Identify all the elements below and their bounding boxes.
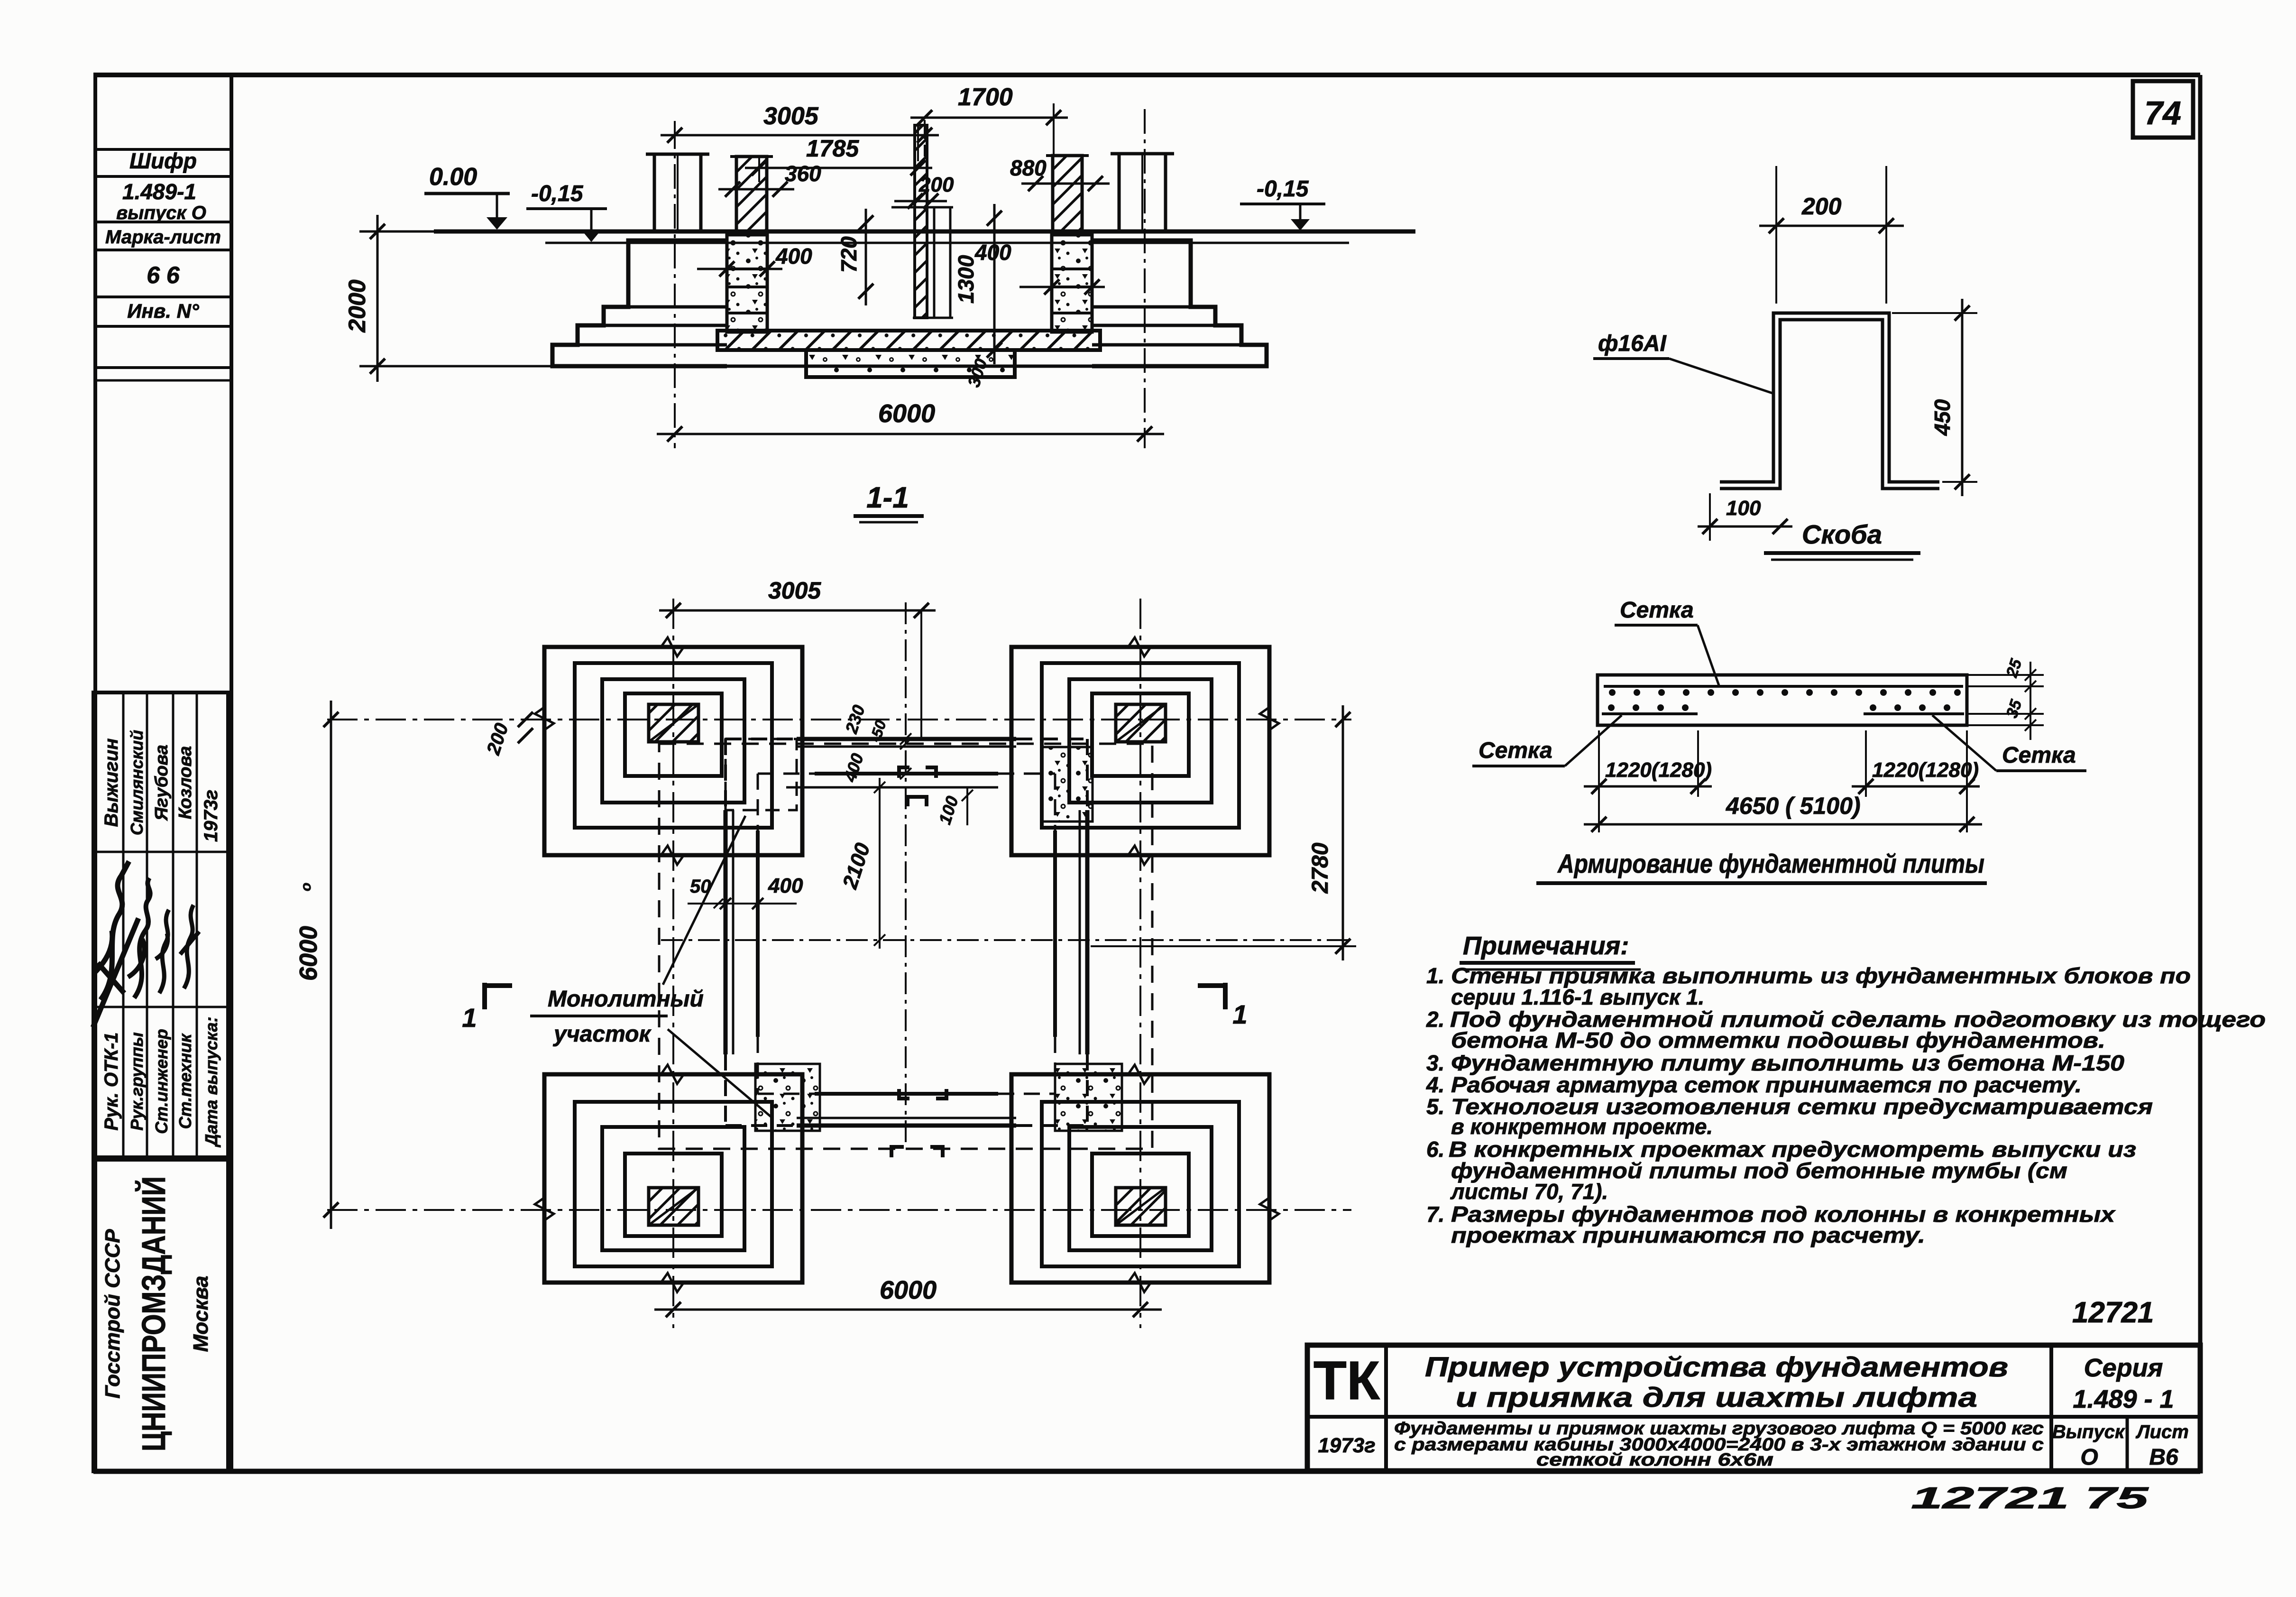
dim 360 [718, 188, 794, 191]
dim 400 / 50 on left wall [688, 903, 797, 905]
foundation bottom line [552, 365, 1267, 368]
svg-text:Инв. N°: Инв. N° [127, 300, 200, 322]
dim 2000 left [377, 215, 379, 382]
dim 100 [1698, 526, 1792, 528]
svg-text:200: 200 [918, 173, 954, 196]
svg-text:25: 25 [2002, 656, 2025, 680]
top mesh line with bar dots [1604, 685, 1963, 688]
svg-text:Москва: Москва [189, 1276, 212, 1352]
stamp table: executors names and signatures [93, 692, 228, 1157]
svg-text:Шифр: Шифр [129, 148, 197, 173]
pit centre axes [905, 602, 907, 1148]
svg-text:6000: 6000 [880, 1276, 937, 1304]
column axis right [1144, 109, 1146, 448]
svg-text:Монолитный: Монолитный [548, 987, 704, 1012]
dim 1220(1280) right [1865, 730, 1867, 797]
svg-text:400: 400 [775, 244, 812, 268]
footing (nested squares) [544, 647, 802, 855]
lean concrete under slab (stippled) [806, 350, 1015, 377]
svg-text:1.489-1: 1.489-1 [122, 179, 196, 204]
svg-text:360: 360 [785, 161, 821, 186]
far column left (thin outline) [646, 153, 709, 156]
svg-text:0.00: 0.00 [429, 163, 477, 191]
svg-text:12721 75: 12721 75 [1911, 1481, 2149, 1515]
stamp: Госстрой СССР ЦНИИПРОМЗДАНИЙ Москва [93, 1160, 228, 1471]
pit walls inner [815, 772, 998, 775]
wall/slab second lines [797, 746, 1016, 748]
svg-text:400: 400 [768, 874, 803, 897]
svg-text:230: 230 [841, 702, 869, 736]
dim 1300 [993, 204, 996, 364]
svg-text:1785: 1785 [806, 135, 859, 162]
column (hatched) [649, 1188, 698, 1225]
reinforcement of foundation slab diagram [1472, 598, 2086, 883]
svg-text:ЦНИИПРОМЗДАНИЙ: ЦНИИПРОМЗДАНИЙ [135, 1176, 172, 1451]
stepped footing left [552, 240, 727, 366]
svg-text:7.: 7. [1426, 1202, 1444, 1227]
stamp cells: Шифр / 1.489-1 выпуск 0 / Марка-лист / 66 / Инв № [95, 148, 231, 380]
foundation slab edge (dashed) [659, 744, 1152, 1149]
column right (hatched) [1053, 156, 1082, 231]
svg-text:450: 450 [1930, 399, 1955, 436]
svg-text:880: 880 [1010, 156, 1047, 180]
slab outline [1598, 675, 1967, 725]
dim 200 [1759, 225, 1904, 227]
bottom mesh right [1864, 712, 1964, 715]
dim 720 [865, 209, 867, 305]
svg-text:35: 35 [2003, 697, 2026, 720]
svg-text:Фундаментную плиту выполнить: Фундаментную плиту выполнить из бетона М… [1451, 1051, 2124, 1075]
monolithic corner patch top-left (dashed) [726, 739, 797, 810]
svg-text:бетона М-50 до отметки подош: бетона М-50 до отметки подошвы фундамент… [1451, 1028, 2105, 1052]
section view 1-1 [344, 83, 1415, 522]
svg-text:Смилянский: Смилянский [127, 730, 147, 835]
svg-text:400: 400 [840, 751, 867, 785]
svg-text:400: 400 [974, 240, 1011, 265]
svg-text:4.: 4. [1426, 1072, 1444, 1097]
svg-text:200: 200 [1801, 193, 1842, 220]
svg-text:Ягубова: Ягубова [152, 745, 172, 821]
svg-text:6000: 6000 [295, 926, 322, 981]
svg-text:6 6: 6 6 [147, 262, 180, 288]
svg-text:Скоба: Скоба [1802, 519, 1882, 549]
svg-text:Рук.группы: Рук.группы [127, 1032, 147, 1131]
skoba symbols in plan [899, 767, 936, 778]
svg-text:1.: 1. [1426, 963, 1444, 988]
svg-text:Выжигин: Выжигин [101, 738, 122, 827]
dims 25 35 right [1967, 674, 2044, 676]
svg-text:Армирование фундаментной пли: Армирование фундаментной плиты [1557, 849, 1984, 878]
svg-text:Рук. ОТК-1: Рук. ОТК-1 [101, 1032, 122, 1130]
svg-text:1.489 - 1: 1.489 - 1 [2073, 1385, 2174, 1413]
svg-text:Ст.инженер: Ст.инженер [152, 1029, 171, 1134]
dim 2780 right [1342, 705, 1344, 960]
svg-text:1220(1280): 1220(1280) [1605, 758, 1712, 782]
svg-text:720: 720 [836, 236, 861, 273]
skoba (bracket) detail [1593, 166, 1977, 560]
dim 1700 [910, 117, 1068, 119]
svg-text:Примечания:: Примечания: [1463, 932, 1629, 960]
svg-text:2.: 2. [1426, 1007, 1444, 1032]
svg-text:-0,15: -0,15 [531, 181, 584, 206]
column (hatched) [649, 704, 698, 742]
svg-text:100: 100 [935, 794, 962, 827]
svg-text:Козлова: Козлова [175, 746, 195, 819]
column axis left [674, 124, 676, 448]
svg-text:В6: В6 [2149, 1445, 2178, 1470]
section mark 1 left [482, 983, 487, 1009]
dim 1785 [745, 167, 932, 169]
column left (hatched) [736, 157, 767, 231]
bottom mesh left [1602, 712, 1698, 715]
pit wall blocks right (stippled) [1052, 235, 1092, 332]
stepped footing right [1092, 240, 1267, 366]
interior line 100 inside top wall [786, 786, 998, 789]
leader lines [663, 816, 745, 985]
svg-text:o: o [298, 883, 314, 891]
svg-text:Рабочая арматура сеток прин: Рабочая арматура сеток принимается по ра… [1451, 1072, 2082, 1097]
svg-text:1220(1280): 1220(1280) [1872, 758, 1979, 782]
dim extension verticals [758, 157, 760, 182]
svg-text:Сетка: Сетка [1620, 598, 1694, 623]
footing (nested squares) [1011, 1074, 1269, 1283]
svg-text:1: 1 [462, 1003, 477, 1033]
centre pit wall above ground [915, 125, 927, 318]
svg-text:Ст.техник: Ст.техник [175, 1033, 195, 1129]
svg-text:2780: 2780 [1308, 842, 1333, 894]
column (hatched) [1116, 1188, 1166, 1225]
svg-text:1-1: 1-1 [866, 481, 909, 514]
ground line [434, 230, 1415, 234]
svg-text:Сетка: Сетка [2002, 743, 2076, 768]
dim 450 [1961, 299, 1964, 496]
svg-text:12721: 12721 [2072, 1296, 2154, 1329]
dim 3005 [661, 134, 939, 137]
svg-text:и приямка для шахты лифта: и приямка для шахты лифта [1456, 1382, 1977, 1413]
pit walls outer (solid middles, dashed corners) [797, 737, 1016, 741]
svg-text:2000: 2000 [344, 279, 370, 332]
svg-text:проектах принимаются по рас: проектах принимаются по расчету. [1451, 1223, 1925, 1247]
dim 6000 bottom [654, 1309, 1162, 1311]
svg-text:Серия: Серия [2084, 1354, 2163, 1382]
svg-text:100: 100 [1726, 497, 1761, 520]
pit floor slab (hatched) [717, 331, 1100, 350]
svg-text:74: 74 [2144, 94, 2181, 131]
pit wall blocks left (stippled) [727, 235, 767, 332]
dim 4650 (5100) [1584, 823, 1982, 826]
svg-text:Лист: Лист [2135, 1422, 2189, 1442]
svg-text:3005: 3005 [763, 102, 819, 130]
svg-text:1973г: 1973г [201, 790, 221, 842]
svg-text:ТК: ТК [1313, 1350, 1380, 1411]
dim 880 [1021, 183, 1110, 185]
svg-text:6000: 6000 [878, 399, 935, 428]
svg-text:2100: 2100 [838, 840, 874, 892]
dim 2100 [879, 778, 881, 949]
axis lines [672, 599, 674, 1328]
svg-text:3.: 3. [1426, 1051, 1444, 1075]
plan view of foundations and pit [295, 577, 1356, 1328]
svg-text:Госстрой СССР: Госстрой СССР [101, 1229, 124, 1399]
svg-text:серии 1.116-1 выпуск 1.: серии 1.116-1 выпуск 1. [1451, 985, 1704, 1009]
column (hatched) [1116, 704, 1166, 742]
svg-text:3005: 3005 [768, 577, 821, 604]
signatures [95, 861, 129, 1000]
dim 400 right [1019, 286, 1105, 288]
far column right (thin outline) [1111, 152, 1174, 156]
corner patch bottom-right (stippled) [1055, 1064, 1122, 1131]
svg-text:сеткой колонн 6х6м: сеткой колонн 6х6м [1536, 1450, 1773, 1470]
section mark 1 right [1223, 983, 1228, 1009]
svg-text:ф16АІ: ф16АІ [1598, 331, 1667, 356]
svg-text:выпуск О: выпуск О [116, 203, 206, 223]
svg-text:листы 70, 71).: листы 70, 71). [1450, 1179, 1608, 1204]
title block [1307, 1345, 2200, 1515]
footing (nested squares) [1011, 647, 1269, 855]
svg-text:-0,15: -0,15 [1257, 176, 1309, 202]
svg-text:участок: участок [553, 1022, 652, 1047]
footing (nested squares) [544, 1074, 802, 1283]
svg-text:Выпуск: Выпуск [2052, 1422, 2125, 1442]
svg-text:6.: 6. [1426, 1137, 1444, 1162]
corner patch top-right (stippled) [1042, 747, 1093, 822]
dim 6000 left [330, 701, 332, 1229]
svg-text:Сетка: Сетка [1479, 738, 1552, 763]
svg-text:1973г: 1973г [1318, 1434, 1375, 1457]
dim 400 left [697, 268, 782, 270]
dim 3005 (plan) [659, 609, 936, 612]
dim 6000 bottom [657, 433, 1164, 435]
notes (Примечания) [1426, 932, 2266, 1329]
svg-text:200: 200 [483, 720, 513, 757]
svg-text:4650 ( 5100): 4650 ( 5100) [1726, 793, 1861, 819]
dim 200 centre [894, 200, 947, 203]
svg-text:Дата выпуска:: Дата выпуска: [202, 1016, 221, 1147]
corner patch bottom-left (stippled) [755, 1064, 820, 1131]
dim 1220(1280) left [1598, 730, 1600, 832]
svg-text:Марка-лист: Марка-лист [105, 227, 221, 248]
svg-text:Пример устройства фундаменто: Пример устройства фундаментов [1425, 1352, 2008, 1383]
svg-text:1: 1 [1232, 999, 1247, 1029]
svg-text:5.: 5. [1426, 1094, 1444, 1119]
bracket U-shape (double line) [1720, 313, 1939, 482]
svg-text:О: О [2080, 1445, 2098, 1470]
page number box 74 [2133, 81, 2193, 138]
svg-text:в конкретном проекте.: в конкретном проекте. [1451, 1114, 1713, 1139]
svg-text:1700: 1700 [958, 83, 1013, 111]
